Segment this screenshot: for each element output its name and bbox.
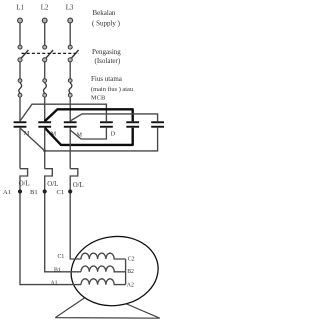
- overload element O/L 2: [45, 169, 53, 190]
- isolator mechanical link (dashed): [22, 52, 80, 54]
- svg-text:(Isolater): (Isolater): [95, 57, 121, 65]
- isolator pole 1 top contact: [18, 45, 22, 49]
- contactor D pole 1: [100, 121, 113, 127]
- isolator pole 1 blade: [20, 50, 28, 60]
- contactor D pole 3: [151, 121, 164, 127]
- fuse F3: [68, 79, 72, 97]
- svg-text:B1: B1: [54, 267, 61, 273]
- wire line2 below M2: [44, 128, 46, 169]
- fuse F2: [43, 79, 47, 97]
- isolator pole 3 blade: [70, 50, 78, 60]
- wire T3 : M3 top to D3 top: [70, 114, 157, 121]
- contactor M pole 3: [64, 121, 77, 127]
- isolator pole 2 blade: [45, 50, 53, 60]
- motor body circle: [67, 231, 163, 311]
- svg-text:O/L: O/L: [73, 182, 84, 189]
- motor stand: [55, 298, 160, 319]
- svg-text:C1: C1: [58, 254, 65, 260]
- junction node line2/B1/B4: [43, 150, 46, 153]
- wire L1 terminal to isolator: [19, 23, 21, 45]
- svg-text:( Supply ): ( Supply ): [92, 19, 121, 27]
- wire T2 thick : M2 top to D2 top: [45, 109, 133, 121]
- contactor D pole 2: [126, 121, 139, 127]
- svg-text:B1: B1: [30, 189, 38, 196]
- svg-text:L1: L1: [16, 5, 24, 12]
- svg-text:O/L: O/L: [19, 180, 30, 187]
- wire B2 thick : M2 bottom to D2 bottom: [45, 128, 133, 145]
- contactor M pole 2: [38, 121, 51, 127]
- isolator pole 3 top contact: [68, 45, 72, 49]
- svg-text:D: D: [111, 131, 116, 137]
- overload element O/L 1: [20, 169, 28, 190]
- overload element O/L 3: [70, 169, 78, 190]
- svg-text:Pengasing: Pengasing: [92, 48, 121, 56]
- wire isolator to fuse L1: [19, 62, 21, 79]
- wire B1 : M1 bottom diagonal to line2: [20, 128, 45, 151]
- isolator pole 3 bottom contact: [68, 58, 72, 62]
- fuse F1: [18, 79, 22, 97]
- supply terminal L2: [42, 18, 47, 23]
- supply terminal L3: [68, 18, 73, 23]
- svg-text:A1: A1: [3, 189, 11, 196]
- svg-text:Bekalan: Bekalan: [93, 9, 116, 17]
- svg-text:O/L: O/L: [47, 181, 58, 188]
- isolator pole 1 bottom contact: [18, 58, 22, 62]
- wire C1 to motor winding C: [70, 193, 81, 259]
- wire L2 terminal to isolator: [44, 23, 46, 45]
- svg-text:MCB: MCB: [91, 95, 105, 102]
- wire fuse to contactor L1: [19, 97, 21, 121]
- wire A1 to motor winding A: [20, 193, 81, 284]
- svg-text:A2: A2: [127, 282, 134, 288]
- svg-text:A1: A1: [51, 280, 58, 286]
- supply terminal L1: [18, 18, 23, 23]
- svg-text:B2: B2: [127, 269, 134, 275]
- motor winding A (bottom row): [81, 279, 126, 285]
- svg-text:C2: C2: [128, 256, 135, 262]
- wire fuse to contactor L3: [69, 97, 71, 121]
- wire line1 below M1: [19, 128, 21, 169]
- svg-text:Fius utama: Fius utama: [91, 75, 123, 83]
- wire T1 : M1 top to D1 top: [20, 104, 106, 121]
- isolator pole 2 top contact: [43, 45, 47, 49]
- terminal B1: [43, 189, 47, 193]
- wire B4 : D3 bottom to line2: [45, 128, 158, 151]
- terminal A1: [18, 189, 22, 193]
- svg-text:L3: L3: [66, 5, 74, 12]
- wire isolator to fuse L2: [44, 62, 46, 79]
- wire B1 to motor winding B: [45, 193, 81, 271]
- motor winding C (top row): [81, 253, 126, 259]
- wire line3 below M3: [69, 128, 71, 169]
- svg-text:L2: L2: [41, 5, 49, 12]
- wire B3 : M3 bottom to D1 bottom: [70, 128, 106, 139]
- wire L3 terminal to isolator: [69, 23, 71, 45]
- svg-text:C1: C1: [57, 189, 65, 196]
- contactor M pole 1: [14, 121, 27, 127]
- terminal C1: [68, 189, 72, 193]
- wire isolator to fuse L3: [69, 62, 71, 79]
- wire fuse to contactor L2: [44, 97, 46, 121]
- isolator pole 2 bottom contact: [43, 58, 47, 62]
- motor winding B (middle row): [81, 266, 126, 272]
- star point bus: [125, 259, 127, 285]
- svg-text:(main fius ) atau: (main fius ) atau: [91, 86, 134, 93]
